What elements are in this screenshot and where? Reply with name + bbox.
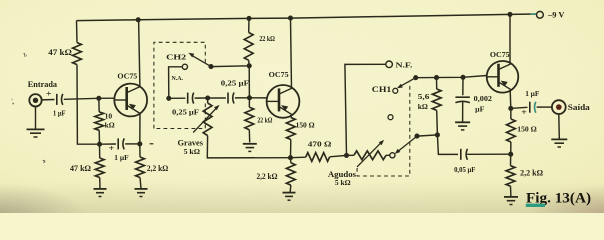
wire Q1 base xyxy=(99,97,115,99)
label + of C7 xyxy=(521,107,527,117)
wire Q3 emitter down xyxy=(509,90,512,108)
svg-text:N.A.: N.A. xyxy=(172,75,184,82)
wire Q3 base line xyxy=(416,76,487,78)
svg-text:+: + xyxy=(521,107,527,117)
svg-text:150 Ω: 150 Ω xyxy=(296,122,315,130)
svg-text:Entrada: Entrada xyxy=(28,79,58,89)
wire R12 to node xyxy=(510,142,512,154)
dashed box CH1 Agudos xyxy=(357,83,410,177)
switch CH1 lower arm xyxy=(395,136,417,154)
svg-text:OC75: OC75 xyxy=(490,50,510,59)
node output network junction xyxy=(508,152,513,157)
node Q2 emitter network junction xyxy=(288,155,293,160)
wire R4 to ground xyxy=(140,178,141,189)
wire Q3 collector to rail xyxy=(509,14,511,63)
wire node to Agudos pot xyxy=(347,154,354,156)
svg-text:5 kΩ: 5 kΩ xyxy=(184,147,200,156)
mark stray speck far-left xyxy=(11,99,14,105)
resistor R3 47k lower xyxy=(95,158,104,178)
transistor Q3 OC75 xyxy=(487,61,519,93)
wire C4 to 22k node xyxy=(235,97,250,99)
wire node to R11 xyxy=(436,78,438,89)
svg-text:0,25 µF: 0,25 µF xyxy=(221,79,249,87)
label Q1 OC75 xyxy=(117,72,137,81)
svg-text:1 µF: 1 µF xyxy=(114,153,129,162)
label R5 22k xyxy=(259,34,275,43)
label N.A. xyxy=(172,75,184,82)
label R11 kohm line2 xyxy=(418,102,428,111)
node 470-NF junction xyxy=(344,153,349,158)
capacitor C4 0.25uF xyxy=(228,93,234,104)
svg-text:kΩ: kΩ xyxy=(418,102,428,111)
label C3 0.25uF xyxy=(172,109,200,117)
arrow Agudos wiper xyxy=(357,140,384,167)
capacitor C1 1uF input xyxy=(57,94,63,105)
svg-text:47 kΩ: 47 kΩ xyxy=(48,48,72,57)
wire Graves bottom to 470 node xyxy=(207,136,290,158)
node rail junction R5 xyxy=(246,16,251,21)
wire R2 to bias node xyxy=(98,130,100,144)
wire pot to CH1 contact xyxy=(386,154,390,156)
mark stray speck left xyxy=(43,160,45,162)
wire C2 to Q1 emitter node xyxy=(125,143,140,145)
resistor R13 2.2k xyxy=(506,166,515,187)
wire R8 to ground xyxy=(289,185,292,192)
wire node to Q2 base xyxy=(250,97,267,99)
label R8 2.2k xyxy=(257,172,279,181)
wire node to R13 xyxy=(510,154,512,166)
label + of C2 xyxy=(109,143,115,153)
node rail junction Q1 collector xyxy=(136,17,141,22)
label C4 0.25uF xyxy=(221,79,249,87)
wire output terminal ground lead xyxy=(558,114,561,139)
wire node to R8 xyxy=(290,158,292,163)
wire bias node to C2 xyxy=(100,143,117,145)
potentiometer Agudos 5k xyxy=(354,151,386,160)
resistor R11 5.6k xyxy=(432,89,441,110)
resistor R8 2.2k xyxy=(286,163,295,185)
ground R8 xyxy=(283,193,296,201)
ground R13 xyxy=(504,197,518,205)
wire emitter node to R12 xyxy=(510,108,512,119)
resistor R6 22k lower xyxy=(245,107,254,130)
svg-text:150 Ω: 150 Ω xyxy=(517,126,537,134)
switch CH1 lower contact xyxy=(390,153,395,158)
resistor R2 10k xyxy=(95,112,104,130)
svg-text:1 µF: 1 µF xyxy=(525,89,540,98)
node CH1 lower right junction xyxy=(435,132,440,137)
wire input terminal ground lead xyxy=(35,107,37,129)
label CH2 xyxy=(166,52,186,61)
wire CH2 contact to mid node xyxy=(169,67,183,99)
capacitor C7 1uF output xyxy=(530,102,536,113)
label + of C1 xyxy=(46,88,52,98)
node Q1 emitter junction xyxy=(137,141,142,146)
wire bias node to R3 xyxy=(99,144,101,158)
mark stray dash xyxy=(150,143,154,145)
wire R6 to ground xyxy=(248,130,250,143)
wire Graves node to C4 xyxy=(208,97,226,99)
label -9V xyxy=(547,11,565,20)
node Q3 emitter junction xyxy=(508,106,513,111)
label R6 22k xyxy=(257,116,272,124)
wire mid node to R6 xyxy=(248,98,250,107)
ground R6 xyxy=(243,144,257,152)
label Q2 OC75 xyxy=(269,70,289,79)
switch CH1 middle contact xyxy=(388,115,393,120)
mark stray glyph top-left xyxy=(23,51,27,58)
ground R4 xyxy=(135,189,148,197)
node CH2 pivot xyxy=(208,64,213,69)
label R7 150 xyxy=(296,122,315,130)
capacitor C6 0.05uF xyxy=(461,149,468,160)
svg-text:470 Ω: 470 Ω xyxy=(308,139,332,148)
wire -9V supply rail xyxy=(77,14,537,21)
resistor R12 150 ohm xyxy=(507,119,516,142)
capacitor C5 0.002uF xyxy=(455,97,470,102)
wire Graves node to pot xyxy=(207,98,209,103)
switch CH2 arm xyxy=(188,53,211,67)
wire base node to R2 xyxy=(98,98,100,112)
wire node to R9 xyxy=(291,156,306,159)
ground output xyxy=(551,139,567,147)
label C1 1uF xyxy=(53,109,66,118)
label R13 2.2k xyxy=(520,168,543,177)
label R3 47k xyxy=(70,164,92,173)
label R4 2.2k xyxy=(147,164,169,173)
wire Q1 collector to rail xyxy=(139,20,140,87)
potentiometer Graves 5k xyxy=(203,103,212,136)
label R2 10k line2 xyxy=(105,123,116,130)
node CH1 lower pivot xyxy=(414,134,419,139)
label Q3 OC75 xyxy=(490,50,510,59)
capacitor C2 1uF bypass xyxy=(118,138,124,149)
label R1 47k xyxy=(48,48,72,57)
wire C1 to Q1 base node xyxy=(64,98,99,99)
terminal output Saida xyxy=(552,100,566,114)
svg-text:47 kΩ: 47 kΩ xyxy=(70,164,92,173)
label C5 uF line2 xyxy=(475,105,485,113)
label Fig 13(A) xyxy=(526,191,591,207)
wire R9 to N.F. node xyxy=(330,155,347,156)
wire rail to R5 xyxy=(248,18,250,32)
label R2 10k line1 xyxy=(105,113,113,120)
wire CH1 pivot to node xyxy=(417,135,437,136)
svg-text:+: + xyxy=(46,88,52,98)
capacitor C3 0.25uF xyxy=(188,93,194,104)
wire Q3 emitter to C7 xyxy=(512,107,528,108)
svg-text:2,2 kΩ: 2,2 kΩ xyxy=(147,164,169,173)
wire R7 to node xyxy=(290,140,292,158)
label CH1 xyxy=(372,85,392,94)
label R12 150 xyxy=(517,126,537,134)
node bias junction xyxy=(97,142,102,147)
svg-text:2,2 kΩ: 2,2 kΩ xyxy=(257,172,279,181)
node rail junction Q3 collector xyxy=(507,12,512,17)
ground input xyxy=(27,129,45,137)
wire R3 to ground xyxy=(99,178,101,189)
resistor R9 470 ohm xyxy=(306,153,330,162)
wire emitter node to R4 xyxy=(139,144,141,157)
wire R11 to lower node xyxy=(436,110,439,134)
switch CH2 contact N.A. xyxy=(182,64,187,69)
wire CH2 pivot to 22k node xyxy=(211,65,249,68)
label C2 1uF xyxy=(114,153,129,162)
svg-text:0,05 µF: 0,05 µF xyxy=(454,166,476,174)
label C5 0.002 line1 xyxy=(474,95,493,103)
wire R5 to mid node xyxy=(248,60,251,98)
node Graves top junction xyxy=(205,95,210,100)
svg-text:kΩ: kΩ xyxy=(105,123,116,130)
wire mid node to C3 xyxy=(169,97,186,99)
label Graves 5k xyxy=(184,147,200,156)
svg-text:µF: µF xyxy=(475,105,485,113)
terminal N.F. xyxy=(386,61,393,68)
node CH1 upper pivot xyxy=(413,75,418,80)
wire rail corner to R1 xyxy=(76,21,79,43)
wire Q1 emitter down xyxy=(139,113,141,144)
wire Q2 collector to rail xyxy=(291,18,292,88)
svg-text:10: 10 xyxy=(105,113,113,120)
svg-text:0,002: 0,002 xyxy=(474,95,493,103)
resistor R4 2.2k xyxy=(136,157,145,178)
switch CH1 upper arm xyxy=(397,78,416,89)
transistor Q2 OC75 xyxy=(267,85,300,118)
svg-text:0,25 µF: 0,25 µF xyxy=(172,109,200,117)
wire node down to C6 wire xyxy=(437,135,458,155)
label C6 0.05uF xyxy=(454,166,476,174)
svg-text:22 kΩ: 22 kΩ xyxy=(259,34,275,43)
switch CH1 upper contact xyxy=(393,88,398,93)
node 22k upper junction xyxy=(247,63,252,68)
svg-text:CH1: CH1 xyxy=(372,85,392,94)
node 5.6k top junction xyxy=(434,75,439,80)
svg-text:Saída: Saída xyxy=(568,103,590,112)
svg-text:–9 V: –9 V xyxy=(547,11,565,20)
label Graves xyxy=(178,139,204,148)
ground C5 xyxy=(455,122,470,130)
dashed box CH2 xyxy=(154,42,205,128)
wire C6 to output node xyxy=(467,153,509,155)
wire teal tint before -9V xyxy=(531,13,537,15)
arrow Graves wiper xyxy=(193,105,219,133)
label Agudos 5k xyxy=(335,178,351,187)
label Saida xyxy=(568,103,590,112)
ground R3 xyxy=(94,189,107,197)
node rail junction Q2 collector xyxy=(288,16,293,21)
wire C7 to output terminal xyxy=(537,106,552,108)
wire node to C5 xyxy=(462,77,464,95)
wire Q2 emitter to R7 xyxy=(290,115,293,118)
wire R1 down to bias node (crosses input wire) xyxy=(77,65,97,145)
svg-text:1 µF: 1 µF xyxy=(53,109,66,118)
label C7 1uF xyxy=(525,89,540,98)
wire input terminal to C1 xyxy=(42,99,55,101)
wire C3 to Graves node xyxy=(195,97,206,99)
svg-text:OC75: OC75 xyxy=(269,70,289,79)
terminal -9V xyxy=(537,11,544,18)
mark teal underline xyxy=(526,204,545,207)
node mid wire left junction xyxy=(166,96,171,101)
svg-text:5 kΩ: 5 kΩ xyxy=(335,178,351,187)
label R9 470 xyxy=(308,139,332,148)
label R11 5.6 line1 xyxy=(418,92,430,101)
transistor Q1 OC75 xyxy=(114,84,147,117)
svg-text:5,6: 5,6 xyxy=(418,92,430,101)
wire C5 to ground xyxy=(462,101,464,122)
svg-text:2,2 kΩ: 2,2 kΩ xyxy=(520,168,543,177)
svg-text:OC75: OC75 xyxy=(117,72,137,81)
node 0.002 top junction xyxy=(460,75,465,80)
label Agudos xyxy=(328,170,356,179)
node 22k mid junction xyxy=(247,95,252,100)
svg-text:N.F.: N.F. xyxy=(396,60,413,69)
label Entrada xyxy=(28,79,58,89)
wire N.F. branch xyxy=(345,64,386,155)
svg-text:22 kΩ: 22 kΩ xyxy=(257,116,272,124)
resistor R5 22k upper xyxy=(244,33,253,61)
node Q1 base junction xyxy=(96,96,101,101)
svg-text:CH2: CH2 xyxy=(166,52,186,61)
label N.F. xyxy=(396,60,413,69)
wire R13 to ground xyxy=(510,186,512,196)
svg-text:ъ: ъ xyxy=(23,51,27,58)
resistor R1 47k upper xyxy=(73,43,82,65)
resistor R7 150 ohm xyxy=(286,118,295,140)
terminal input Entrada xyxy=(29,94,41,106)
